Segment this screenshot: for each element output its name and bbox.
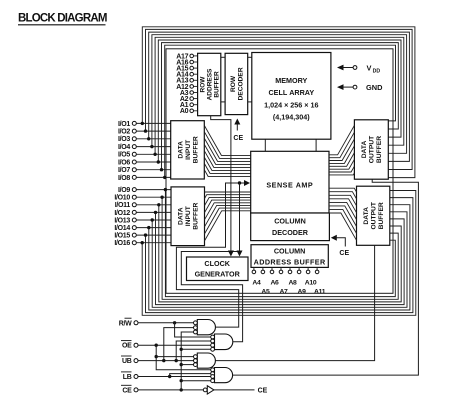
wire UB branch up to gate2 input2 [176, 341, 211, 361]
svg-text:LB: LB [123, 374, 132, 381]
wire row-address-buffer to row-decoder (lower) [221, 101, 225, 103]
svg-text:SENSE AMP: SENSE AMP [266, 181, 313, 190]
wire I/O14 wrap (left-bottom-right to output buffer) [149, 205, 410, 310]
I/O9 pin and wire [118, 187, 171, 194]
wire sense amp to data output buffer 2 bit4 [329, 199, 357, 213]
wire data input buffer 2 bit8 to sense amp [205, 211, 251, 241]
and-gate G1 (write upper) [194, 320, 216, 335]
svg-text:INPUT: INPUT [185, 205, 192, 226]
svg-text:CE: CE [122, 387, 132, 394]
memory cell array box [252, 53, 331, 140]
svg-text:A10: A10 [305, 279, 317, 286]
wire row-decoder to memory array (lower) [248, 101, 252, 103]
svg-text:A11: A11 [314, 289, 326, 296]
wire sense amp to data output buffer 1 bit3 [329, 139, 354, 161]
data output buffer box (lower, I/O9-16) [357, 186, 390, 245]
wire memory-array to sense-amp (right) [315, 139, 317, 151]
wire R/W to gate1 input1 [138, 321, 194, 324]
sense amp box [251, 151, 329, 213]
column address pin A11 [314, 267, 326, 295]
svg-text:I/O8: I/O8 [118, 175, 130, 182]
I/O16 pin and wire [114, 240, 171, 247]
svg-text:GND: GND [366, 83, 383, 92]
wire I/O10 wrap (left-bottom-right to output buffer) [162, 197, 398, 299]
svg-text:1,024 × 256 × 16: 1,024 × 256 × 16 [264, 100, 318, 109]
wire sense amp to data output buffer 2 bit7 [329, 209, 357, 233]
I/O14 pin and wire [114, 225, 171, 232]
wire data input buffer 1 bit6 to sense amp [204, 157, 250, 170]
column address pin A5 [261, 267, 270, 295]
svg-text:I/O16: I/O16 [114, 240, 130, 247]
data output buffer box (upper, I/O1-8) [354, 120, 388, 179]
wire I/O15 wrap (left-bottom-right to output buffer) [146, 198, 413, 313]
svg-text:ROW: ROW [230, 75, 237, 92]
wire gate4 output to data output buffer 1 enable [233, 179, 419, 375]
svg-text:I/O11: I/O11 [115, 202, 131, 209]
wire row address buffer to clock generator (address transition detect) [211, 116, 234, 257]
column address pin A6 [270, 267, 279, 286]
wire R/W branch down to gate2 input1 [175, 323, 211, 337]
svg-text:I/O3: I/O3 [118, 136, 130, 143]
svg-text:BUFFER: BUFFER [192, 136, 199, 163]
svg-text:UB: UB [122, 358, 132, 365]
wire LB to gate4 input3 [138, 375, 211, 378]
VDD pin [337, 64, 380, 75]
wire I/O11 wrap (left-bottom-right to output buffer) [159, 205, 401, 302]
svg-text:INPUT: INPUT [185, 139, 192, 160]
wire I/O7 wrap (left-top-right to output buffer) [162, 43, 399, 170]
svg-text:DECODER: DECODER [237, 67, 244, 100]
svg-text:A7: A7 [279, 289, 288, 296]
wire gate2 output to clock generator (around clock generator) [181, 252, 242, 342]
wire sense amp to data output buffer 2 bit8 [329, 213, 357, 240]
wire row-decoder to memory array (upper) [248, 56, 252, 58]
column address pin A10 [305, 267, 317, 286]
address pin A1 [180, 102, 198, 109]
CE pin [121, 385, 138, 394]
svg-text:(4,194,304): (4,194,304) [273, 113, 310, 122]
CE buffer (triangle) and internal CE output [203, 386, 267, 395]
wire OE to gate2 input3 [138, 344, 211, 347]
svg-text:DATA: DATA [363, 207, 370, 225]
svg-text:A9: A9 [298, 289, 307, 296]
wire UB to gate3 input2 [138, 359, 194, 362]
wire sense amp to data output buffer 2 bit3 [329, 195, 357, 206]
address pin A13 [176, 78, 197, 85]
UB pin [121, 356, 138, 365]
svg-text:OUTPUT: OUTPUT [370, 201, 377, 229]
svg-text:CE: CE [339, 250, 349, 257]
I/O10 pin and wire [114, 195, 171, 202]
wire I/O5 wrap (left-top-right to output buffer) [155, 37, 404, 154]
data input buffer box (lower, I/O9-16) [171, 187, 205, 246]
svg-text:ADDRESS: ADDRESS [207, 68, 214, 100]
I/O7 pin and wire [118, 167, 171, 174]
svg-text:A8: A8 [288, 279, 297, 286]
wire data input buffer 2 bit7 to sense amp [205, 208, 251, 234]
svg-text:I/O9: I/O9 [118, 187, 130, 194]
wire sense amp to data output buffer 1 bit4 [329, 146, 354, 164]
I/O13 pin and wire [114, 217, 171, 224]
address pin A12 [176, 84, 197, 91]
svg-text:BUFFER: BUFFER [376, 136, 383, 163]
column address pin A4 [252, 267, 261, 286]
svg-text:I/O6: I/O6 [118, 159, 130, 166]
wire data input buffer 1 bit1 to sense amp [204, 125, 250, 155]
svg-text:A0: A0 [180, 108, 189, 115]
wire gate1 output to sense amp (around clock generator) [176, 180, 250, 327]
data input buffer box (upper, I/O1-8) [171, 121, 205, 179]
wire I/O4 wrap (left-top-right to output buffer) [152, 35, 407, 154]
svg-text:DATA: DATA [361, 141, 368, 159]
wire data input buffer 2 bit4 to sense amp [205, 200, 251, 213]
wire row-address-buffer to row-decoder (upper) [221, 56, 225, 58]
LB pin [121, 372, 138, 381]
wire I/O3 wrap (left-top-right to output buffer) [149, 32, 410, 161]
OE pin [121, 341, 138, 350]
address pin A0 [180, 108, 198, 115]
address pin A16 [176, 59, 197, 66]
wire data input buffer 2 bit1 to sense amp [205, 191, 251, 194]
svg-text:COLUMN: COLUMN [274, 217, 306, 226]
wire data input buffer 2 bit6 to sense amp [205, 205, 251, 226]
I/O4 pin and wire [118, 144, 171, 151]
wire data input buffer 2 bit3 to sense amp [205, 197, 251, 205]
svg-text:BUFFER: BUFFER [193, 202, 200, 229]
svg-text:DD: DD [373, 68, 381, 74]
row address buffer box [198, 53, 221, 115]
and-gate G2 (write lower) [211, 334, 233, 351]
wire data input buffer 1 bit3 to sense amp [204, 138, 250, 161]
svg-text:BUFFER: BUFFER [214, 71, 221, 98]
clock generator box [187, 257, 249, 281]
svg-text:I/O10: I/O10 [114, 195, 130, 202]
wire data input buffer 1 bit4 to sense amp [204, 144, 250, 164]
wire data input buffer 1 bit5 to sense amp [204, 151, 250, 168]
wire CE branch up to gates [180, 332, 211, 390]
svg-text:I/O1: I/O1 [118, 121, 130, 128]
wire data input buffer 1 bit2 to sense amp [204, 132, 250, 159]
R/W pin [119, 318, 138, 327]
svg-text:I/O4: I/O4 [118, 144, 130, 151]
column address buffer box [251, 245, 328, 268]
address pin A2 [180, 96, 198, 103]
wire sense amp to data output buffer 1 bit2 [329, 132, 354, 158]
wire I/O1 wrap (left-top-right to output buffer) [142, 27, 415, 178]
svg-text:DATA: DATA [178, 207, 185, 225]
address pin A15 [176, 66, 197, 73]
wire data input buffer 1 bit8 to sense amp [204, 170, 250, 177]
svg-text:R/W: R/W [119, 320, 132, 327]
wire sense amp to data output buffer 1 bit7 [329, 166, 354, 172]
I/O12 pin and wire [114, 210, 171, 217]
svg-text:I/O7: I/O7 [118, 167, 130, 174]
wire branch down-arrow into clock generator (from sense-amp line) [237, 183, 243, 257]
svg-text:ROW: ROW [199, 76, 206, 93]
wire sense amp to data output buffer 2 bit2 [329, 192, 357, 199]
column decoder box [251, 213, 330, 241]
wire data input buffer 1 bit7 to sense amp [204, 163, 250, 173]
svg-text:ADDRESS BUFFER: ADDRESS BUFFER [254, 257, 326, 266]
svg-text:CE: CE [258, 388, 268, 395]
svg-text:I/O13: I/O13 [114, 217, 130, 224]
and-gate G4 (output enable lower) [211, 368, 233, 383]
I/O15 pin and wire [114, 233, 171, 240]
column address pin A7 [279, 267, 288, 295]
wire sense amp to data output buffer 2 bit6 [329, 206, 357, 227]
address pin A14 [176, 72, 197, 79]
wire sense amp to data output buffer 2 bit5 [329, 202, 357, 219]
I/O11 pin and wire [115, 202, 171, 209]
I/O8 pin and wire [118, 175, 171, 182]
wire CE to inverter [138, 388, 203, 391]
I/O6 pin and wire [118, 159, 171, 166]
svg-text:CLOCK: CLOCK [204, 259, 230, 268]
address pin A17 [176, 53, 197, 60]
svg-text:A4: A4 [252, 279, 261, 286]
column address pin A8 [288, 267, 297, 286]
title BLOCK DIAGRAM [18, 13, 107, 25]
chip outline box [166, 49, 393, 293]
wire OE branch down to gate3 input1 and gate4 input1 [155, 345, 211, 370]
svg-text:DATA: DATA [177, 141, 184, 159]
column address pin A9 [297, 267, 306, 295]
wire I/O16 wrap (left-bottom-right to output buffer) [142, 191, 416, 316]
wire I/O13 wrap (left-bottom-right to output buffer) [152, 212, 407, 307]
svg-text:BLOCK DIAGRAM: BLOCK DIAGRAM [18, 13, 107, 25]
row decoder box [225, 53, 248, 114]
wire data input buffer 2 bit2 to sense amp [205, 195, 251, 199]
wire I/O6 wrap (left-top-right to output buffer) [158, 40, 401, 162]
wire sense amp to data output buffer 1 bit8 [329, 173, 354, 175]
wire I/O9 wrap (left-bottom-right to output buffer) [165, 190, 395, 297]
svg-text:I/O5: I/O5 [118, 152, 130, 159]
wire memory-array to sense-amp (left) [264, 139, 266, 151]
GND pin [337, 83, 383, 92]
svg-text:I/O14: I/O14 [114, 225, 130, 232]
svg-text:I/O12: I/O12 [114, 210, 130, 217]
CE arrow into column decoder [331, 235, 350, 257]
svg-text:DECODER: DECODER [272, 228, 309, 237]
svg-text:CELL ARRAY: CELL ARRAY [268, 88, 314, 97]
wire gate3 output to data output buffer 2 enable [216, 245, 375, 360]
svg-text:V: V [367, 64, 372, 73]
CE arrow into row decoder [233, 119, 243, 143]
wire I/O8 wrap (left-top-right to output buffer) [165, 45, 396, 177]
I/O2 pin and wire [118, 129, 171, 136]
svg-text:A5: A5 [261, 289, 270, 296]
svg-text:I/O15: I/O15 [114, 233, 130, 240]
svg-text:BUFFER: BUFFER [378, 202, 385, 229]
svg-text:CE: CE [233, 135, 243, 142]
wire I/O12 wrap (left-bottom-right to output buffer) [156, 212, 405, 304]
wire sense amp to data output buffer 1 bit1 [329, 125, 354, 154]
svg-text:A6: A6 [270, 279, 279, 286]
wire sense amp to data output buffer 1 bit5 [329, 153, 354, 167]
svg-text:MEMORY: MEMORY [275, 76, 307, 85]
I/O1 pin and wire [118, 121, 171, 128]
wire I/O2 wrap (left-top-right to output buffer) [146, 29, 413, 169]
wire sense amp to data output buffer 2 bit1 [329, 188, 357, 192]
address pin A3 [180, 90, 198, 97]
svg-text:GENERATOR: GENERATOR [195, 270, 241, 279]
I/O3 pin and wire [118, 136, 171, 143]
svg-text:COLUMN: COLUMN [274, 247, 306, 256]
and-gate G3 (output enable upper) [194, 353, 216, 368]
wire UB branch up to gate1 input2 [164, 328, 194, 361]
svg-text:OE: OE [122, 343, 132, 350]
svg-text:OUTPUT: OUTPUT [369, 135, 376, 163]
I/O5 pin and wire [118, 152, 171, 159]
svg-text:I/O2: I/O2 [118, 129, 130, 136]
wire data input buffer 2 bit5 to sense amp [205, 203, 251, 220]
wire sense amp to data output buffer 1 bit6 [329, 159, 354, 169]
wire LB branch up to gate4 input2 [170, 374, 211, 377]
